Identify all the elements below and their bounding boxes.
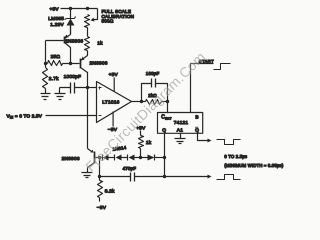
wire R3 right <box>63 63 71 65</box>
svg-text:B: B <box>195 114 198 120</box>
ground G2 (C1) <box>55 94 66 100</box>
node Q3 base / diodes / C3 branch <box>98 156 101 159</box>
resistor R7 8.2k <box>99 177 101 181</box>
svg-text:Q: Q <box>162 128 166 134</box>
one-shot U2 74121 box <box>158 113 203 134</box>
zener D1 LM385 1.23V <box>70 9 72 19</box>
svg-text:+5V: +5V <box>109 72 119 78</box>
diode D2 1N914 <box>102 155 104 161</box>
wire D2-D3 <box>109 157 115 159</box>
transistor Q1 2N3906 <box>64 37 66 44</box>
svg-text:1k: 1k <box>146 140 152 146</box>
diode D4 1N914 <box>127 155 129 161</box>
node R3/R4 junction <box>44 62 47 65</box>
node 25ohm/Q1 collector/Q2 base junction <box>69 62 72 65</box>
waveform START step <box>214 64 231 70</box>
wire D5 to Q pin line <box>155 157 165 159</box>
wire node to D5 <box>141 157 148 159</box>
wire D3-D4 <box>122 157 128 159</box>
node Q pin / diode row <box>163 156 166 159</box>
transistor Q2 2N3906 <box>80 59 82 69</box>
ground G1 (R4) <box>41 94 51 100</box>
wire Q1 base to left branch <box>46 41 64 64</box>
svg-text:25Ω: 25Ω <box>51 54 61 60</box>
wire Q3 base <box>95 157 100 159</box>
svg-text:+5V: +5V <box>50 6 60 12</box>
wire Q pin down <box>164 134 166 177</box>
wire VIN to -input <box>46 115 97 117</box>
diode D5 1N914 <box>154 155 156 161</box>
svg-text:2N3906: 2N3906 <box>90 61 108 67</box>
svg-text:2.7k: 2.7k <box>49 76 59 82</box>
wire diode row left <box>100 157 103 159</box>
watermark FreeCircuitDiagram.Com <box>82 48 208 174</box>
node R6 bottom / diodes <box>139 156 142 159</box>
diode D3 1N914 <box>114 155 116 161</box>
resistor R2 1k (current source) <box>85 37 90 51</box>
svg-text:100pF: 100pF <box>146 71 160 76</box>
wire U1 output <box>132 101 142 103</box>
svg-text:8.2k: 8.2k <box>105 188 115 194</box>
power U1 -5V <box>112 112 114 127</box>
wire bottom output <box>165 176 209 178</box>
node C2 right / CEXT pin <box>166 100 169 103</box>
svg-text:0 TO 2.5μs: 0 TO 2.5μs <box>224 154 247 159</box>
svg-text:470pF: 470pF <box>123 166 137 171</box>
svg-text:(MINIMUM WIDTH ≈ 0.05μs): (MINIMUM WIDTH ≈ 0.05μs) <box>224 163 283 168</box>
wire pot to R2 <box>87 28 89 37</box>
svg-text:LT1016: LT1016 <box>102 99 119 105</box>
wire Qbar output <box>198 134 209 141</box>
wire D4 to node <box>135 157 141 159</box>
resistor R3 25 ohm <box>48 61 63 66</box>
capacitor C3 470pF <box>100 176 165 178</box>
svg-text:A1: A1 <box>177 128 183 134</box>
node top-rail / pot junction <box>86 7 89 10</box>
svg-text:500Ω: 500Ω <box>102 19 114 24</box>
wire left node down <box>99 158 101 177</box>
svg-text:2N3906: 2N3906 <box>62 156 80 162</box>
node ramp / C1 / +input junction <box>86 86 89 89</box>
wire top +5V rail <box>61 8 98 10</box>
wire Q2 base <box>71 63 80 65</box>
comparator U1 LT1016 <box>97 82 132 123</box>
wire R3 left <box>46 63 48 65</box>
node C3 left / R7 top <box>98 175 101 178</box>
node Q pin / C3 right <box>163 175 166 178</box>
capacitor C2 100pF <box>142 84 168 102</box>
svg-text:−5V: −5V <box>97 205 107 211</box>
ground G3 (Q3 collector) <box>82 173 93 178</box>
svg-text:Q: Q <box>195 128 199 134</box>
ground G4 (A1) <box>175 139 186 144</box>
resistor R4 2.7k <box>43 68 48 89</box>
node top-rail / LM385 junction <box>69 7 72 10</box>
resistor R5 2k <box>142 101 168 103</box>
potentiometer R1 500 ohm full scale calibration <box>85 15 90 28</box>
transistor Q3 2N3906 (reset) <box>94 152 96 164</box>
resistor R6 1k <box>140 131 142 136</box>
wire ramp line (Q2 collector to Q3 emitter) <box>87 88 89 149</box>
node output/C2 left <box>140 100 143 103</box>
waveform negative pulse <box>217 140 241 145</box>
waveform positive pulse <box>217 175 241 180</box>
U1 plus input sign <box>99 87 102 90</box>
U1 minus input sign <box>99 115 102 117</box>
svg-text:LM385: LM385 <box>48 16 64 22</box>
wire START to B pin <box>191 64 214 113</box>
svg-text:1000pF: 1000pF <box>64 74 82 80</box>
wire A1 pin to ground <box>180 134 182 139</box>
capacitor C1 1000pF <box>60 87 88 89</box>
svg-text:2N3906: 2N3906 <box>65 38 83 44</box>
svg-text:74121: 74121 <box>174 120 189 126</box>
wire U1 +input <box>88 87 97 89</box>
svg-text:1k: 1k <box>97 40 103 46</box>
wire CEXT pin <box>167 102 169 113</box>
svg-text:1.23V: 1.23V <box>50 22 64 28</box>
